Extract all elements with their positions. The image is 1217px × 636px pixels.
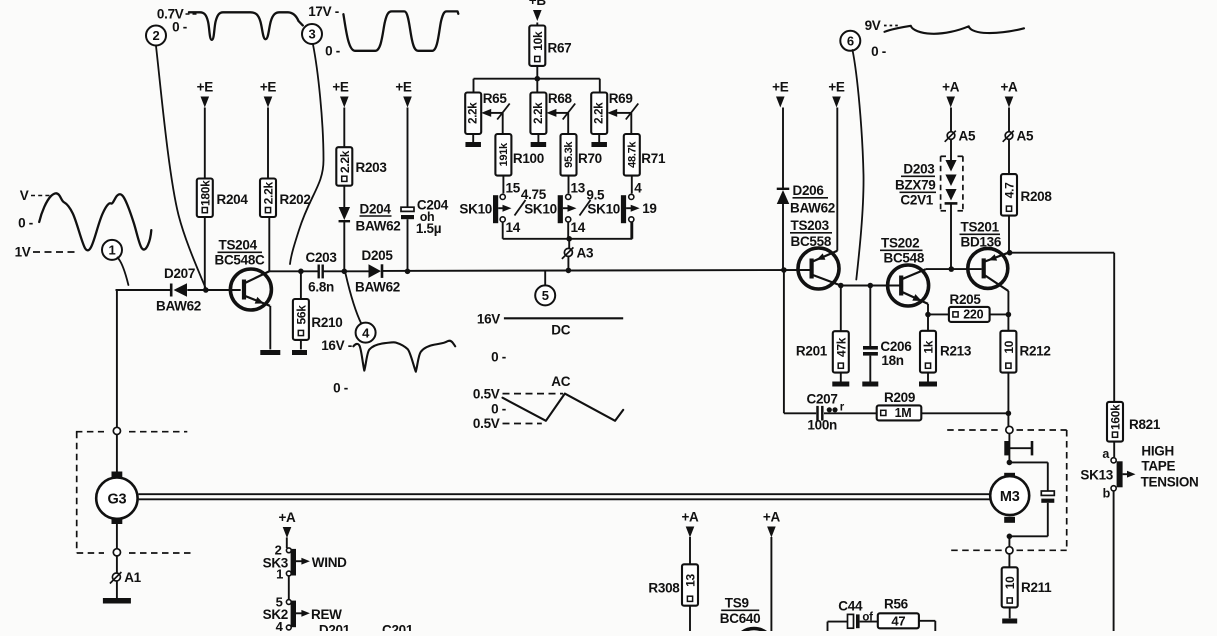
- svg-text:REW: REW: [311, 607, 342, 622]
- svg-text:AC: AC: [551, 374, 570, 389]
- svg-text:4.7: 4.7: [1003, 182, 1017, 198]
- svg-text:R821: R821: [1129, 417, 1161, 432]
- svg-text:R209: R209: [884, 390, 915, 405]
- svg-text:16V: 16V: [477, 312, 500, 327]
- svg-text:3: 3: [309, 27, 316, 42]
- svg-text:0 -: 0 -: [333, 381, 348, 396]
- svg-text:R204: R204: [217, 192, 249, 207]
- svg-text:0.5V: 0.5V: [473, 387, 500, 402]
- svg-text:16V -: 16V -: [321, 338, 352, 353]
- svg-text:SK10: SK10: [459, 201, 492, 216]
- svg-text:0 -: 0 -: [491, 350, 506, 365]
- svg-text:C203: C203: [306, 250, 338, 265]
- svg-text:R210: R210: [311, 315, 342, 330]
- svg-text:SK13: SK13: [1080, 468, 1113, 483]
- svg-text:R65: R65: [483, 91, 508, 106]
- svg-text:0 -: 0 -: [172, 20, 187, 35]
- svg-text:R201: R201: [796, 344, 828, 359]
- svg-text:+A: +A: [1000, 80, 1018, 95]
- svg-text:4.75: 4.75: [521, 187, 547, 202]
- svg-text:15: 15: [506, 181, 521, 196]
- svg-text:19: 19: [642, 201, 656, 216]
- svg-text:D206: D206: [793, 183, 825, 198]
- svg-text:+E: +E: [828, 80, 845, 95]
- svg-text:0.5V: 0.5V: [473, 416, 500, 431]
- svg-text:BC640: BC640: [720, 611, 761, 626]
- svg-text:0 -: 0 -: [18, 216, 33, 231]
- svg-text:4: 4: [362, 325, 370, 340]
- svg-text:SK10: SK10: [587, 201, 620, 216]
- svg-text:14: 14: [571, 220, 586, 235]
- svg-text:TAPE: TAPE: [1141, 459, 1175, 474]
- svg-text:1: 1: [276, 567, 283, 582]
- svg-text:+E: +E: [197, 80, 214, 95]
- svg-text:47k: 47k: [834, 337, 848, 357]
- svg-text:+A: +A: [278, 510, 296, 525]
- svg-text:SK10: SK10: [524, 201, 557, 216]
- svg-text:C206: C206: [880, 339, 912, 354]
- svg-text:R69: R69: [609, 91, 633, 106]
- svg-text:A3: A3: [577, 245, 594, 260]
- svg-text:R211: R211: [1021, 580, 1052, 595]
- svg-text:HIGH: HIGH: [1141, 444, 1174, 459]
- svg-text:C207: C207: [807, 392, 838, 407]
- svg-text:G3: G3: [108, 492, 127, 508]
- svg-text:1.5µ: 1.5µ: [416, 221, 441, 236]
- svg-text:0 -: 0 -: [871, 44, 886, 59]
- svg-text:R205: R205: [950, 292, 982, 307]
- svg-text:9.5: 9.5: [586, 187, 605, 202]
- svg-text:BC548C: BC548C: [215, 253, 266, 268]
- svg-text:+A: +A: [942, 80, 960, 95]
- svg-text:TENSION: TENSION: [1141, 475, 1199, 490]
- svg-text:10: 10: [1003, 576, 1017, 589]
- svg-text:BC558: BC558: [791, 234, 832, 249]
- svg-text:R71: R71: [641, 151, 666, 166]
- svg-text:R67: R67: [548, 41, 572, 56]
- svg-text:TS203: TS203: [791, 218, 830, 233]
- svg-text:220: 220: [963, 307, 983, 321]
- svg-text:191k: 191k: [498, 142, 510, 166]
- svg-text:DC: DC: [551, 323, 570, 338]
- svg-text:R202: R202: [280, 192, 311, 207]
- svg-text:+E: +E: [332, 80, 349, 95]
- svg-text:0 -: 0 -: [325, 44, 340, 59]
- svg-text:2: 2: [153, 28, 160, 43]
- svg-text:47: 47: [891, 613, 905, 628]
- svg-text:+A: +A: [763, 510, 781, 525]
- svg-text:R308: R308: [648, 581, 680, 596]
- svg-text:10: 10: [1002, 340, 1016, 353]
- svg-text:2.2k: 2.2k: [262, 182, 276, 205]
- svg-text:9V: 9V: [865, 18, 881, 33]
- svg-text:+B: +B: [529, 0, 547, 8]
- svg-text:BAW62: BAW62: [156, 299, 201, 314]
- svg-text:TS9: TS9: [725, 596, 749, 611]
- svg-text:TS204: TS204: [219, 238, 258, 253]
- svg-text:+E: +E: [260, 80, 277, 95]
- svg-text:2.2k: 2.2k: [468, 102, 480, 124]
- svg-text:M3: M3: [1000, 489, 1020, 505]
- svg-text:TS202: TS202: [881, 236, 919, 251]
- svg-text:R100: R100: [513, 151, 544, 166]
- svg-text:0 -: 0 -: [491, 402, 506, 417]
- svg-text:BD136: BD136: [961, 235, 1002, 250]
- svg-text:b: b: [1103, 487, 1111, 501]
- svg-text:2.2k: 2.2k: [594, 102, 606, 124]
- svg-text:R208: R208: [1021, 189, 1053, 204]
- svg-text:TS201: TS201: [961, 220, 1000, 235]
- svg-text:6: 6: [847, 34, 854, 49]
- svg-text:D203: D203: [903, 162, 935, 177]
- svg-text:48.7k: 48.7k: [626, 141, 638, 168]
- svg-text:160k: 160k: [1109, 404, 1123, 430]
- svg-text:C201: C201: [382, 623, 414, 632]
- svg-text:10k: 10k: [531, 31, 545, 51]
- svg-text:1: 1: [109, 243, 116, 258]
- svg-text:+A: +A: [681, 510, 699, 525]
- svg-text:+E: +E: [772, 80, 789, 95]
- svg-text:A1: A1: [124, 570, 141, 585]
- svg-text:D205: D205: [362, 248, 394, 263]
- svg-text:4: 4: [634, 181, 642, 196]
- svg-text:18n: 18n: [881, 353, 903, 368]
- svg-text:1V: 1V: [15, 245, 31, 260]
- svg-text:+E: +E: [395, 80, 412, 95]
- svg-text:C44: C44: [838, 599, 863, 614]
- svg-text:A5: A5: [959, 129, 976, 144]
- svg-text:13: 13: [684, 574, 698, 587]
- svg-text:5: 5: [542, 288, 549, 303]
- svg-text:2.2k: 2.2k: [533, 102, 545, 124]
- svg-text:WIND: WIND: [312, 555, 347, 570]
- svg-text:BAW62: BAW62: [355, 280, 400, 295]
- svg-text:180k: 180k: [198, 180, 212, 206]
- svg-text:17V -: 17V -: [308, 4, 339, 19]
- svg-text:C2V1: C2V1: [900, 193, 933, 208]
- svg-text:1M: 1M: [895, 406, 912, 420]
- svg-text:BC548: BC548: [884, 251, 925, 266]
- svg-text:BZX79: BZX79: [895, 178, 936, 193]
- svg-text:R212: R212: [1020, 344, 1051, 359]
- svg-text:R56: R56: [884, 597, 909, 612]
- svg-text:1k: 1k: [922, 340, 936, 353]
- svg-text:2.2k: 2.2k: [338, 150, 352, 173]
- svg-text:A5: A5: [1017, 129, 1034, 144]
- svg-text:BAW62: BAW62: [790, 201, 835, 216]
- svg-text:V: V: [20, 188, 29, 203]
- svg-text:56k: 56k: [294, 305, 308, 325]
- svg-text:R70: R70: [578, 151, 602, 166]
- svg-text:100n: 100n: [807, 418, 837, 433]
- svg-text:R213: R213: [940, 344, 972, 359]
- svg-text:6.8n: 6.8n: [308, 280, 334, 295]
- svg-text:4: 4: [276, 619, 284, 631]
- svg-text:14: 14: [506, 220, 521, 235]
- svg-text:BAW62: BAW62: [356, 219, 401, 234]
- svg-text:R203: R203: [356, 160, 388, 175]
- svg-text:D204: D204: [360, 202, 392, 217]
- svg-text:R68: R68: [548, 91, 573, 106]
- svg-text:D207: D207: [164, 266, 195, 281]
- svg-text:13: 13: [571, 181, 586, 196]
- svg-text:D201: D201: [319, 623, 351, 632]
- svg-text:95.3k: 95.3k: [563, 141, 575, 168]
